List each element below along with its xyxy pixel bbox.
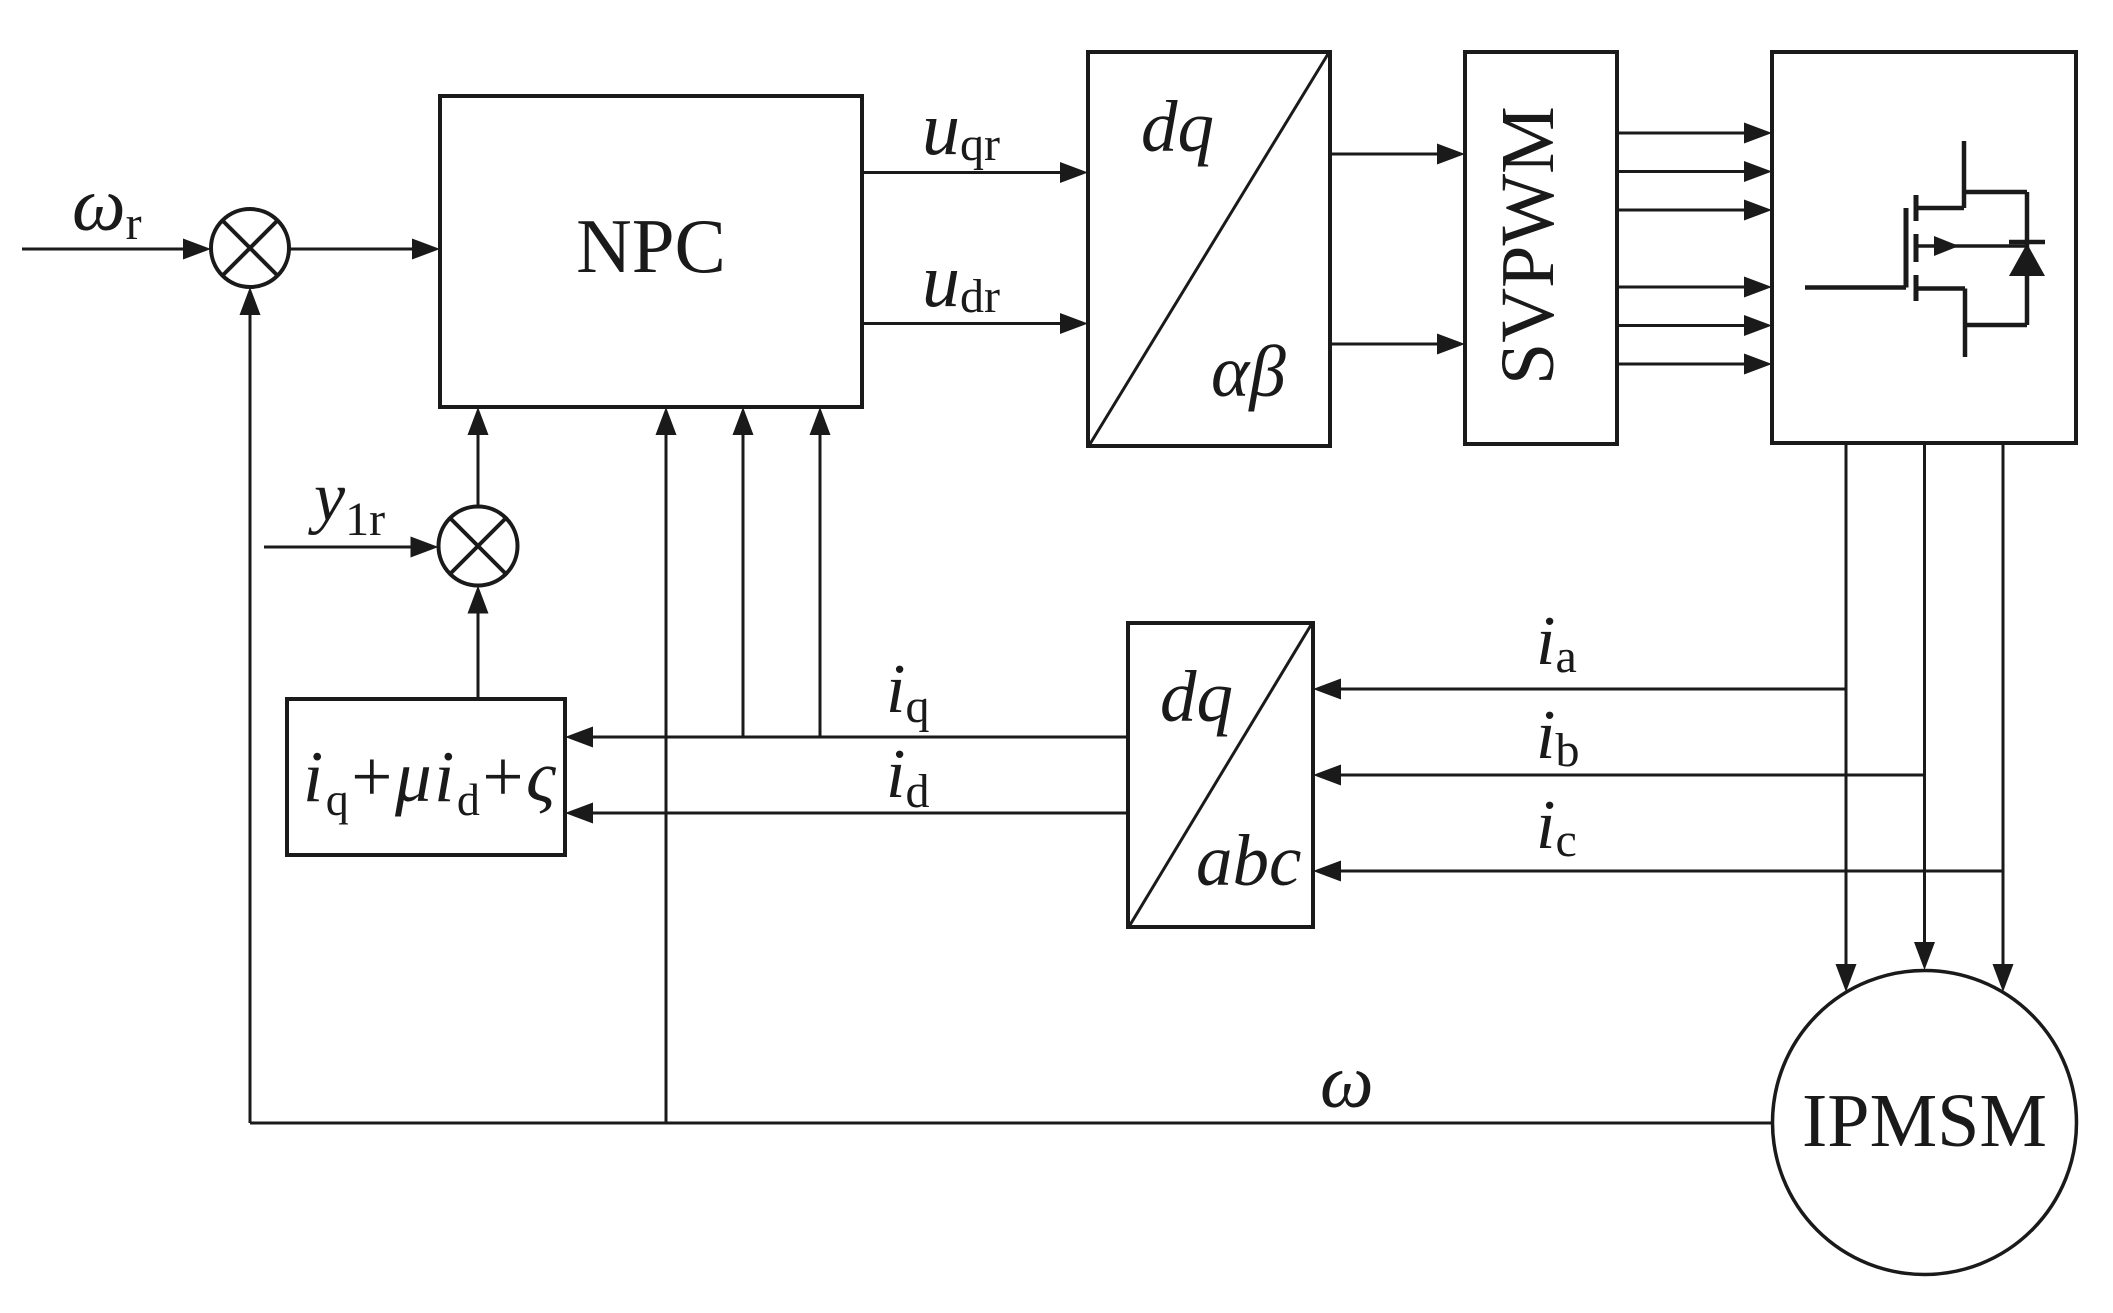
arrowhead i_c into dq-abc	[1313, 861, 1341, 882]
wire SVPWM to inverter 4	[1617, 286, 1748, 289]
block inverter	[1772, 52, 2076, 443]
wire i_b	[1341, 774, 1925, 777]
arrowhead omega_r into circle1	[183, 239, 211, 260]
summing junction circle1	[211, 209, 289, 287]
block iq+mu*id+sigma	[287, 699, 565, 855]
arrowhead vertical 820 into NPC	[810, 407, 831, 435]
wire i_c	[1341, 870, 2003, 873]
arrowhead phase c into IPMSM	[1993, 964, 2014, 992]
svg-text:dq: dq	[1141, 86, 1214, 167]
wire vertical i_d branch to NPC	[819, 421, 822, 737]
arrowhead i_d into sigma box	[565, 803, 593, 824]
arrowhead up into circle2 bottom	[468, 586, 489, 614]
wire inverter phase a down	[1845, 443, 1848, 968]
svg-text:IPMSM: IPMSM	[1802, 1079, 2047, 1163]
wire y1r input	[264, 546, 426, 549]
wire SVPWM to inverter 5	[1617, 324, 1748, 327]
arrowhead into inverter 1	[1744, 123, 1772, 144]
top bar to diode	[1964, 190, 2027, 195]
arrowhead i_q into sigma box	[565, 727, 593, 748]
summing junction circle2	[439, 507, 518, 586]
motor IPMSM circle	[1773, 971, 2077, 1275]
arrowhead u_dr into dq-ab box	[1060, 313, 1088, 334]
wire i_d	[593, 812, 1128, 815]
arrowhead y1r into circle2	[411, 537, 439, 558]
diode cathode bar	[2009, 240, 2045, 245]
svg-text:NPC: NPC	[576, 203, 726, 289]
wire SVPWM to inverter 6	[1617, 363, 1748, 366]
arrowhead lower into SVPWM	[1437, 334, 1465, 355]
svg-text:SVPWM: SVPWM	[1486, 106, 1570, 385]
wire vertical i_q to NPC	[742, 421, 745, 737]
svg-text:dq: dq	[1160, 656, 1233, 737]
wire dq-ab to SVPWM lower	[1330, 343, 1440, 346]
source connector	[1916, 286, 1965, 291]
wire omega_r input	[22, 248, 186, 251]
wire circle2 up to NPC	[477, 421, 480, 507]
block SVPWM	[1465, 52, 1617, 444]
gate lead	[1805, 285, 1906, 290]
wire dq-ab to SVPWM upper	[1330, 153, 1440, 156]
bottom bar to diode	[1965, 323, 2027, 328]
channel segment bottom	[1914, 275, 1919, 301]
arrowhead into inverter 5	[1744, 315, 1772, 336]
arrowhead u_qr into dq-ab box	[1060, 162, 1088, 183]
arrowhead phase b into IPMSM	[1914, 942, 1935, 970]
wire i_a	[1341, 688, 1846, 691]
body connector	[1916, 244, 2027, 248]
wire long vertical omega to NPC	[665, 421, 668, 1123]
transistor MOSFET inside inverter	[1805, 141, 2027, 357]
block dq/alpha-beta	[1088, 52, 1330, 446]
arrowhead phase a into IPMSM	[1836, 964, 1857, 992]
arrowhead upper into SVPWM	[1437, 144, 1465, 165]
arrowhead into NPC left	[412, 239, 440, 260]
arrowhead vertical 743 into NPC	[733, 407, 754, 435]
arrowhead feedback up into circle1	[240, 287, 261, 315]
diode triangle	[2009, 244, 2045, 277]
wire omega feedback horizontal	[250, 1122, 1773, 1125]
source vertical	[1963, 289, 1968, 358]
wire inverter phase c down	[2002, 443, 2005, 968]
wire SVPWM to inverter 3	[1617, 209, 1748, 212]
arrowhead into inverter 2	[1744, 161, 1772, 182]
svg-text:abc: abc	[1196, 820, 1301, 901]
drain lead	[1962, 141, 1967, 208]
wire u_qr	[862, 171, 1062, 174]
arrowhead circle2 up into NPC	[468, 407, 489, 435]
gate plate	[1904, 208, 1909, 288]
wire SVPWM to inverter 1	[1617, 132, 1748, 135]
arrowhead into inverter 4	[1744, 277, 1772, 298]
wire feedback vertical into circle1	[249, 312, 252, 1123]
svg-text:αβ: αβ	[1211, 331, 1286, 412]
svg-text:ω: ω	[1320, 1040, 1374, 1124]
block dq/abc	[1128, 623, 1313, 927]
arrowhead i_a into dq-abc	[1313, 679, 1341, 700]
arrowhead into inverter 6	[1744, 354, 1772, 375]
channel segment middle	[1914, 234, 1919, 262]
wire i_q	[593, 736, 1128, 739]
diode branch vertical	[2025, 192, 2030, 325]
arrowhead i_b into dq-abc	[1313, 765, 1341, 786]
wire circle1 to NPC	[289, 248, 428, 251]
wire u_dr	[862, 322, 1062, 325]
wire inverter phase b down	[1923, 443, 1926, 946]
wire SVPWM to inverter 2	[1617, 170, 1748, 173]
channel segment top	[1914, 195, 1919, 221]
wire box up into circle2	[477, 612, 480, 699]
arrowhead vertical 666 into NPC	[656, 407, 677, 435]
arrowhead into inverter 3	[1744, 200, 1772, 221]
drain-channel connector	[1916, 206, 1964, 211]
body arrow	[1934, 236, 1959, 256]
block NPC	[440, 96, 862, 407]
